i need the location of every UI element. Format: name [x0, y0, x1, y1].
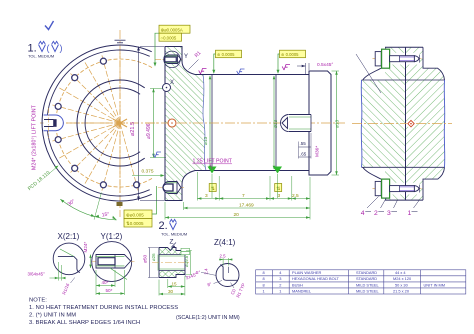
- vertical centerline: [119, 30, 121, 217]
- M36 hole at right end: [281, 115, 312, 132]
- cross hatch bands: [159, 248, 185, 278]
- bolt circle dashed: [56, 59, 152, 187]
- fillet top: [182, 61, 195, 75]
- svg-text:17.469: 17.469: [239, 202, 254, 208]
- plate outline: [165, 47, 182, 201]
- dia39.5 dim: [190, 251, 192, 275]
- outlines: [159, 248, 185, 278]
- datum tick bottom: [117, 202, 123, 206]
- 15 / 30 dims: [159, 276, 185, 296]
- svg-text:○0.0005: ○0.0005: [161, 35, 177, 40]
- outer arc R78: [42, 45, 152, 201]
- svg-text:3/64x45°: 3/64x45°: [28, 272, 46, 277]
- inner bore arc R35: [85, 88, 140, 158]
- green extension line at 255deg: [94, 193, 101, 220]
- top lift slot section: [155, 51, 183, 68]
- svg-text:⌀50: ⌀50: [143, 254, 149, 263]
- svg-text:Z: Z: [170, 239, 174, 246]
- svg-text:3: 3: [205, 193, 208, 199]
- hatch region: flange plate + broken-out shaft: [165, 47, 206, 201]
- centerline: [352, 123, 452, 125]
- dia50 dim: [149, 248, 151, 278]
- step line 1: [211, 75, 213, 171]
- top bolt: [373, 49, 422, 68]
- body horizontal edges: [362, 79, 445, 81]
- dimension dia 21.5: [130, 47, 164, 201]
- svg-text:Y(1:2): Y(1:2): [101, 232, 123, 241]
- datum target squares: [209, 184, 216, 192]
- header note 1: [28, 21, 63, 59]
- left wavy edge: [360, 80, 363, 167]
- shaft bottom edge: [195, 170, 309, 172]
- svg-text:2: 2: [374, 210, 378, 217]
- svg-text:2.5: 2.5: [220, 254, 227, 259]
- bolt hole clearances: [383, 53, 420, 65]
- svg-text:3. BREAK ALL SHARP EDGES: 3. BREAK ALL SHARP EDGES 1/64 INCH: [29, 320, 140, 326]
- svg-text:X: X: [170, 80, 174, 86]
- svg-text:M36*: M36*: [315, 146, 321, 157]
- GDT box B: [212, 50, 241, 74]
- svg-text:4: 4: [361, 210, 365, 217]
- svg-text:15°: 15°: [101, 211, 109, 218]
- svg-text:2.5: 2.5: [292, 193, 299, 199]
- svg-text:44 x 4: 44 x 4: [395, 270, 406, 275]
- blue check: [45, 21, 54, 30]
- svg-text:3: 3: [279, 276, 281, 281]
- finish symbols magenta: [199, 69, 207, 75]
- svg-text:STANDARD: STANDARD: [356, 276, 377, 281]
- dia 13 dim at step2: [273, 76, 275, 169]
- svg-text:⌀21.5: ⌀21.5: [130, 122, 136, 136]
- hatch right part: [406, 47, 424, 80]
- outline: boss top/bottom: [385, 46, 423, 48]
- dimension dia 9.496: [146, 89, 166, 158]
- hatch left part: [385, 47, 406, 80]
- 20 dim: [165, 217, 310, 219]
- svg-text:⊕⌀0.0005A: ⊕⌀0.0005A: [161, 27, 183, 32]
- bottom lift slot section: [158, 182, 184, 194]
- horizontal centerline: [145, 122, 345, 124]
- bottom bolt: [373, 179, 422, 198]
- svg-text:⊛ 0.0005: ⊛ 0.0005: [281, 52, 299, 57]
- leader line top-left: [356, 54, 381, 93]
- wavy break line: [203, 75, 206, 171]
- svg-text:⌀39.5: ⌀39.5: [184, 255, 189, 267]
- svg-text:50*: 50*: [106, 288, 113, 293]
- fillet bottom: [182, 171, 195, 185]
- svg-text:⇅: ⇅: [211, 186, 215, 192]
- GDT box A (two rows): [154, 25, 191, 66]
- svg-text:30: 30: [168, 289, 174, 294]
- small green frames: [181, 248, 190, 251]
- svg-text:MILD STEEL: MILD STEEL: [356, 282, 380, 287]
- datum mark top: [115, 39, 126, 41]
- svg-text:2: 2: [279, 282, 281, 287]
- center diamond: [407, 119, 415, 127]
- svg-text:BUSH: BUSH: [292, 282, 303, 287]
- datum target X circle: [163, 84, 171, 92]
- svg-text:8: 8: [263, 270, 265, 275]
- svg-text:3: 3: [387, 210, 391, 217]
- svg-text:⊛ 0.0005: ⊛ 0.0005: [217, 52, 235, 57]
- finish symbol 1: [39, 41, 46, 51]
- shaft top edge: [195, 74, 309, 76]
- svg-text:1.: 1.: [28, 43, 37, 55]
- svg-text:⇅0.0005: ⇅0.0005: [126, 221, 144, 226]
- center convergence star: [118, 121, 122, 125]
- chain dim line: [197, 198, 310, 200]
- svg-text:⌀9.496: ⌀9.496: [146, 123, 152, 139]
- svg-text:X(2:1): X(2:1): [58, 232, 80, 241]
- right step profile: [423, 47, 445, 200]
- svg-text:15: 15: [172, 281, 178, 286]
- step line 2: [275, 75, 277, 171]
- angular dim arc: [60, 199, 116, 220]
- dia26 dim: [157, 255, 159, 271]
- dia 13 dim at step1: [209, 76, 211, 169]
- arc R73: [47, 50, 150, 196]
- svg-text:2.: 2.: [159, 220, 168, 232]
- neck curves: [363, 68, 381, 179]
- svg-text:⇅: ⇅: [276, 186, 280, 192]
- svg-text:⌀13: ⌀13: [273, 119, 279, 128]
- GDT box C: [277, 50, 306, 74]
- lift point arrows: [208, 167, 217, 174]
- GDT boxes bottom of flange: [124, 210, 152, 219]
- svg-text:): ): [60, 43, 63, 53]
- svg-text:0.375: 0.375: [142, 169, 154, 175]
- Y detail boundary circle: [164, 51, 181, 68]
- svg-text:(SCALE(1:2) UNIT IN MM): (SCALE(1:2) UNIT IN MM): [176, 315, 240, 321]
- svg-text:21.5 x 20: 21.5 x 20: [393, 288, 410, 293]
- horizontal centerline: [40, 122, 160, 124]
- part number labels: [361, 210, 412, 217]
- svg-text:8: 8: [263, 282, 265, 287]
- svg-text:⌀13: ⌀13: [335, 119, 341, 128]
- joint line: [405, 47, 407, 200]
- inner bore arc R43: [77, 80, 145, 166]
- svg-text:M24 x 120: M24 x 120: [393, 276, 412, 281]
- svg-text:2. (*) UNIT IN MM: 2. (*) UNIT IN MM: [29, 313, 76, 319]
- right wavy edge: [443, 80, 446, 167]
- svg-text:7: 7: [242, 193, 245, 199]
- svg-text:1. NO HEAT TREATMENT DURIN: 1. NO HEAT TREATMENT DURING INSTALL PROC…: [29, 305, 178, 311]
- end disc: [309, 71, 331, 175]
- bottom dim chain extension lines: [165, 172, 310, 220]
- svg-text:HEXAGONAL HEAD BOLT: HEXAGONAL HEAD BOLT: [292, 276, 340, 281]
- radial centerlines: [48, 51, 139, 195]
- svg-text:.55: .55: [300, 141, 307, 146]
- svg-text:.65: .65: [300, 152, 307, 157]
- svg-text:1: 1: [408, 210, 412, 217]
- svg-text:⊕⌀0.005: ⊕⌀0.005: [126, 213, 144, 218]
- svg-text:PLAIN WASHER: PLAIN WASHER: [292, 270, 321, 275]
- orange target circle: [168, 119, 176, 127]
- 2.5 dim: [219, 258, 233, 266]
- svg-text:1: 1: [263, 288, 265, 293]
- svg-text:MANDREL: MANDREL: [292, 288, 312, 293]
- svg-text:3: 3: [278, 193, 281, 199]
- lift point slot at 180deg: [44, 115, 64, 131]
- svg-text:TOL. MEDIUM: TOL. MEDIUM: [28, 54, 54, 59]
- svg-text:8: 8: [263, 276, 265, 281]
- svg-text:5°: 5°: [196, 270, 200, 275]
- svg-text:20: 20: [234, 212, 240, 218]
- svg-text:MILD STEEL: MILD STEEL: [356, 288, 380, 293]
- svg-text:⌀26: ⌀26: [151, 253, 156, 261]
- svg-text:M24*: M24*: [83, 242, 88, 253]
- svg-text:40*: 40*: [102, 280, 109, 285]
- svg-text:⌀13: ⌀13: [203, 136, 209, 145]
- svg-text:Z(4:1): Z(4:1): [214, 238, 236, 247]
- svg-text:STANDARD: STANDARD: [356, 270, 377, 275]
- svg-text:TOL. MEDIUM: TOL. MEDIUM: [161, 232, 187, 237]
- bolt holes: [55, 58, 139, 188]
- 40 / 50 dims: [96, 270, 124, 295]
- svg-text:0.5x45°: 0.5x45°: [317, 62, 333, 68]
- svg-text:1: 1: [279, 288, 281, 293]
- svg-text:(: (: [47, 43, 50, 53]
- dia 13 dim end disc: [332, 70, 340, 72]
- 17.469 dim: [184, 207, 311, 209]
- svg-text:NOTE:: NOTE:: [29, 298, 47, 304]
- svg-text:50 x 30: 50 x 30: [395, 282, 409, 287]
- svg-text:UNIT IN MM: UNIT IN MM: [424, 282, 446, 287]
- svg-text:Y: Y: [184, 54, 188, 60]
- finish symbol near bore: [153, 152, 161, 158]
- svg-text:M24* (2x180°) LIFT POINT: M24* (2x180°) LIFT POINT: [32, 104, 38, 170]
